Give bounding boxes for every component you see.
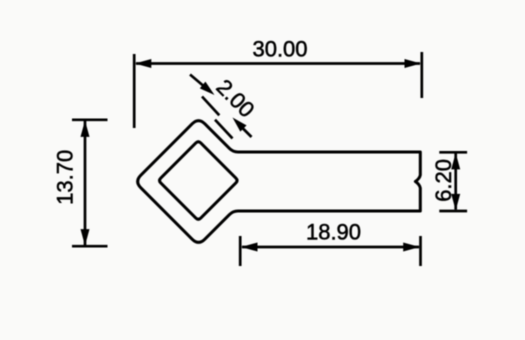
svg-text:30.00: 30.00 xyxy=(252,37,307,62)
svg-text:13.70: 13.70 xyxy=(53,150,78,205)
svg-text:18.90: 18.90 xyxy=(306,220,361,245)
svg-text:6.20: 6.20 xyxy=(431,159,456,202)
